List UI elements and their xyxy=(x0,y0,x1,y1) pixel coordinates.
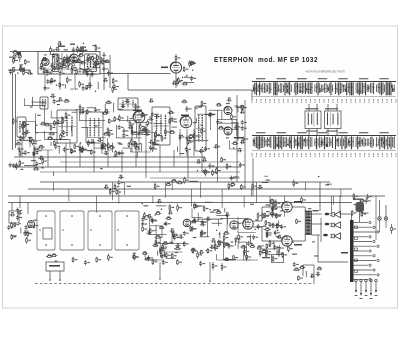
resistor R112 with value label xyxy=(188,134,193,137)
cathode network below V3 xyxy=(180,129,194,156)
capacitor C59 with value label xyxy=(134,104,140,109)
capacitor C118 with value label xyxy=(84,260,90,265)
capacitor C121 with value label xyxy=(147,255,153,261)
resistor R123 with value label xyxy=(132,142,139,145)
wiring mesh xyxy=(116,103,238,152)
keyboard switch module box 2 xyxy=(60,211,84,250)
wire xyxy=(154,143,160,145)
resistor R197 with value label xyxy=(219,240,224,245)
resistor R193 with value label xyxy=(223,234,228,241)
terminal strip bottom lugs xyxy=(355,279,378,299)
resistor R7 with value label xyxy=(43,68,48,74)
tube V6b AF amp xyxy=(230,221,238,229)
capacitor C80 with value label xyxy=(185,106,191,112)
wire xyxy=(141,144,143,151)
label EM80 xyxy=(161,67,168,69)
capacitor C94 with value label xyxy=(34,147,40,152)
capacitor C175 with value label xyxy=(310,274,315,278)
capacitor C96 with value label xyxy=(239,162,245,167)
wire xyxy=(89,58,91,68)
resistor R202 with value label xyxy=(233,255,238,261)
capacitor C107 with value label xyxy=(12,163,18,168)
wire xyxy=(166,257,176,259)
IF transformer / coil can L5 xyxy=(118,98,138,110)
label UCC85 xyxy=(58,46,65,48)
resistor R221 with value label xyxy=(278,250,283,257)
resistor R110 with value label xyxy=(232,141,239,144)
capacitor C102 with value label xyxy=(196,159,201,163)
resistor R32 with value label xyxy=(82,46,87,54)
resistor R128 with value label xyxy=(216,167,221,174)
resistor R113 with value label xyxy=(231,114,236,121)
capacitor C35 with value label xyxy=(190,76,196,81)
resistor R55 with value label xyxy=(22,122,27,130)
capacitor C26 with value label xyxy=(87,83,92,87)
capacitor C135 with value label xyxy=(178,235,183,239)
loudspeaker SP3 xyxy=(330,233,340,239)
capacitor C158 with value label xyxy=(272,202,277,206)
capacitor C89 with value label xyxy=(101,146,106,150)
resistor R143 with value label xyxy=(228,183,233,191)
capacitor C122 with value label xyxy=(141,222,147,227)
resistor R235 with value label xyxy=(361,211,366,217)
capacitor C5 with value label xyxy=(19,67,25,72)
wire xyxy=(266,231,268,237)
capacitor C17 with value label xyxy=(86,67,92,73)
resistor R17 with value label xyxy=(88,54,93,60)
resistor R184 with value label xyxy=(197,251,202,259)
resistor R230 with value label xyxy=(265,220,270,226)
capacitor C70 with value label xyxy=(240,110,245,114)
resistor R29 with value label xyxy=(76,69,81,75)
wire xyxy=(127,116,129,122)
wire xyxy=(43,71,54,73)
resistor R215 with value label xyxy=(266,244,271,249)
IF transformer / coil can T3 xyxy=(86,112,103,143)
capacitor C100 with value label xyxy=(199,149,204,153)
resistor R66 with value label xyxy=(24,121,29,128)
resistor R159 with value label xyxy=(144,212,149,219)
resistor R65 with value label xyxy=(38,145,45,148)
junction xyxy=(36,125,37,126)
capacitor C74 with value label xyxy=(241,126,247,131)
resistor R49 with value label xyxy=(189,60,194,67)
capacitor C78 with value label xyxy=(227,97,232,101)
wire xyxy=(31,101,45,103)
capacitor C36 with value label xyxy=(138,130,144,136)
dial lamp box xyxy=(46,262,64,281)
resistor R216 with value label xyxy=(116,189,121,195)
feedback wire xyxy=(276,246,278,255)
capacitor C47 with value label xyxy=(94,108,100,113)
capacitor C87 with value label xyxy=(24,150,30,155)
resistor R220 with value label xyxy=(288,245,293,252)
capacitor C131 with value label xyxy=(172,233,178,239)
junction xyxy=(186,75,187,76)
resistor R91 with value label xyxy=(131,139,136,145)
resistor R167 with value label xyxy=(152,259,157,265)
junction xyxy=(277,230,278,231)
wire xyxy=(214,242,216,251)
resistor R144 with value label xyxy=(230,182,235,185)
capacitor C44 with value label xyxy=(58,97,63,101)
junction xyxy=(192,70,193,71)
junction xyxy=(51,70,52,71)
coupling capacitor C90 xyxy=(325,213,330,216)
resistor R1 with value label xyxy=(20,65,25,72)
antenna feed wires xyxy=(13,72,16,150)
resistor R188 with value label xyxy=(203,205,208,212)
capacitor C69 with value label xyxy=(242,136,248,141)
capacitor C43 with value label xyxy=(97,138,102,142)
resistor R244 with value label xyxy=(299,265,305,268)
capacitor C148 with value label xyxy=(206,217,211,221)
resistor R201 with value label xyxy=(259,249,264,257)
capacitor C42 with value label xyxy=(79,109,85,114)
capacitor C58 with value label xyxy=(149,99,154,103)
resistor R54 with value label xyxy=(193,132,198,140)
capacitor C110 with value label xyxy=(25,225,31,230)
coupling capacitor C91 xyxy=(325,223,330,226)
resistor R118 with value label xyxy=(91,149,96,155)
resistor R120 with value label xyxy=(115,150,120,156)
wire xyxy=(95,63,97,68)
junction xyxy=(68,66,69,67)
scattered value labels tuner band xyxy=(20,54,318,258)
wire xyxy=(327,183,332,185)
capacitor C48 with value label xyxy=(90,139,95,143)
capacitor C88 with value label xyxy=(18,146,24,151)
resistor R152 with value label xyxy=(72,257,77,263)
capacitor C67 with value label xyxy=(149,145,155,150)
IF transformer / coil can T4 xyxy=(152,107,170,145)
resistor R105 with value label xyxy=(141,128,147,131)
resistor R57 with value label xyxy=(54,140,59,146)
resistor R182 with value label xyxy=(207,248,212,254)
tube V9 6AQ5 output upper xyxy=(282,202,292,212)
junction xyxy=(159,278,161,280)
resistor R139 with value label xyxy=(154,183,159,190)
resistor R61 with value label xyxy=(50,125,55,131)
resistor R89 with value label xyxy=(102,111,109,114)
resistor R101 with value label xyxy=(169,118,174,125)
capacitor C55 with value label xyxy=(142,112,148,117)
resistor R224 with value label xyxy=(272,256,277,263)
label TS 30 xyxy=(341,252,348,254)
wires inside FM box xyxy=(41,53,97,72)
wire xyxy=(219,232,221,239)
capacitor C164 with value label xyxy=(118,175,124,179)
wire xyxy=(224,208,226,213)
wiring mesh xyxy=(145,208,258,260)
capacitor C173 with value label xyxy=(316,272,321,276)
resistor R102 with value label xyxy=(128,142,133,148)
resistor R138 with value label xyxy=(176,181,183,184)
resistor R103 with value label xyxy=(161,135,166,142)
junction xyxy=(202,147,203,148)
tube V10 6AQ5 output lower xyxy=(282,236,292,246)
junction xyxy=(95,91,96,92)
resistor R47 with value label xyxy=(191,60,196,66)
tube V4 EABC80 triode xyxy=(224,107,232,115)
resistor R98 with value label xyxy=(168,111,175,114)
capacitor C97 with value label xyxy=(230,176,236,181)
phase splitter coupling wires xyxy=(253,196,282,249)
resistor R200 with value label xyxy=(250,244,256,247)
capacitor C134 with value label xyxy=(173,235,179,241)
resistor R15 with value label xyxy=(57,55,62,62)
junction xyxy=(49,279,51,281)
decoupling network near FM box xyxy=(104,52,110,90)
capacitor C153 with value label xyxy=(252,235,258,240)
resistor R142 with value label xyxy=(184,177,189,184)
capacitor C137 with value label xyxy=(150,218,156,223)
resistor R39 with value label xyxy=(102,58,107,65)
capacitor C130 with value label xyxy=(146,230,151,234)
capacitor C132 with value label xyxy=(141,217,147,223)
capacitor C51 with value label xyxy=(125,99,131,103)
resistor R33 with value label xyxy=(50,46,55,54)
resistor R122 with value label xyxy=(81,147,86,153)
capacitor C129 with value label xyxy=(164,221,170,226)
resistor R222 with value label xyxy=(296,219,301,224)
wire xyxy=(58,146,60,153)
wire xyxy=(251,90,253,100)
capacitor C56 with value label xyxy=(171,117,177,122)
resistor R223 with value label xyxy=(269,212,276,215)
resistor R191 with value label xyxy=(191,248,196,251)
resistor R225 with value label xyxy=(265,251,270,257)
wire xyxy=(8,69,30,71)
resistor R108 with value label xyxy=(201,101,206,107)
wire xyxy=(24,164,37,166)
junction xyxy=(74,65,75,66)
resistor R238 with value label xyxy=(391,224,396,234)
capacitor C19 with value label xyxy=(65,58,71,63)
resistor R68 with value label xyxy=(43,123,50,126)
resistor R169 with value label xyxy=(174,247,181,250)
capacitor C65 with value label xyxy=(148,117,153,121)
switch block detail B xyxy=(325,108,342,131)
resistor R109 with value label xyxy=(216,103,222,106)
electrolytic filter can xyxy=(353,199,364,223)
capacitor C168 with value label xyxy=(275,214,281,219)
terminal strip TS30 xyxy=(340,196,379,282)
capacitor C77 with value label xyxy=(188,139,194,144)
resistor R83 with value label xyxy=(79,104,84,111)
capacitor C98 with value label xyxy=(213,144,219,148)
resistor R154 with value label xyxy=(134,254,139,260)
capacitor C136 with value label xyxy=(175,243,181,247)
resistor R149 with value label xyxy=(11,222,16,229)
capacitor C75 with value label xyxy=(216,120,222,125)
capacitor C104 with value label xyxy=(208,163,214,169)
capacitor C93 with value label xyxy=(70,149,76,154)
input feed wires xyxy=(12,196,28,214)
capacitor C3 with value label xyxy=(11,67,16,71)
junction xyxy=(121,177,122,178)
trimmer capacitor C1 xyxy=(13,55,16,58)
resistor R173 with value label xyxy=(162,244,167,251)
wire xyxy=(136,151,138,158)
cathode network below V2 xyxy=(132,124,146,152)
resistor R163 with value label xyxy=(155,211,161,214)
resistor R140 with value label xyxy=(241,184,246,190)
rail drop wires xyxy=(53,182,341,217)
wire xyxy=(258,245,264,247)
resistor R114 with value label xyxy=(181,100,187,103)
resistor R22 with value label xyxy=(41,62,46,70)
drop networks below FM box xyxy=(45,74,90,90)
resistor R44 with value label xyxy=(176,78,181,86)
wire xyxy=(164,251,166,257)
resistor R52 with value label xyxy=(145,127,150,135)
resistor R180 with value label xyxy=(159,247,164,255)
capacitor C12 with value label xyxy=(85,57,91,61)
resistor R194 with value label xyxy=(223,231,230,234)
wire xyxy=(66,54,68,62)
junction xyxy=(101,148,102,149)
resistor R199 with value label xyxy=(240,245,246,248)
capacitor C84 with value label xyxy=(32,151,38,156)
capacitor C23 with value label xyxy=(72,47,78,53)
resistor R213 with value label xyxy=(261,249,267,252)
tube V6 EABC80 AF amp xyxy=(183,219,191,227)
resistor R148 with value label xyxy=(33,223,38,229)
wire xyxy=(101,144,103,154)
resistor R212 with value label xyxy=(266,232,271,239)
resistor R186 with value label xyxy=(201,230,206,236)
junction xyxy=(274,232,275,233)
wire xyxy=(361,212,369,214)
capacitor C99 with value label xyxy=(237,148,242,152)
resistor R229 with value label xyxy=(301,197,306,204)
resistor R95 with value label xyxy=(129,120,134,128)
wire xyxy=(205,201,213,203)
capacitor C170 with value label xyxy=(266,231,272,236)
keyboard switch module box 3 xyxy=(88,211,112,250)
resistor R218 with value label xyxy=(114,183,119,190)
capacitor C21 with value label xyxy=(78,48,84,52)
wire xyxy=(186,82,194,84)
junction xyxy=(31,73,32,74)
push-button switch bank S1 upper deck (rear view) xyxy=(251,78,396,103)
wire xyxy=(77,50,87,52)
label 6AQ5 lower xyxy=(294,244,302,246)
capacitor C105 with value label xyxy=(38,156,44,160)
resistor R18 with value label xyxy=(64,56,69,62)
junction xyxy=(201,125,202,126)
capacitor C120 with value label xyxy=(157,199,162,203)
resistor R14 with value label xyxy=(72,65,77,71)
wire xyxy=(171,126,177,128)
wire xyxy=(81,69,86,71)
capacitor C115 with value label xyxy=(7,225,13,230)
junction xyxy=(318,176,319,177)
FM antenna input filter xyxy=(10,51,38,53)
resistor R81 with value label xyxy=(108,142,113,149)
loudspeaker SP2 xyxy=(330,222,340,228)
connector wires between switch decks xyxy=(309,104,337,135)
wire xyxy=(305,271,307,277)
resistor R231 with value label xyxy=(276,223,281,228)
capacitor C114 with value label xyxy=(10,212,15,216)
resistor R196 with value label xyxy=(224,242,231,245)
volume control box xyxy=(43,228,52,239)
resistor R46 with value label xyxy=(178,77,183,84)
capacitor C150 with value label xyxy=(200,222,206,226)
label EABC80 xyxy=(234,137,243,139)
resistor R168 with value label xyxy=(161,246,166,251)
label 6AQ5 upper xyxy=(294,201,302,203)
wire xyxy=(113,103,115,113)
capacitor C161 with value label xyxy=(278,245,284,251)
capacitor C46 with value label xyxy=(104,109,110,113)
resistor R27 with value label xyxy=(97,55,102,60)
capacitor C37 with value label xyxy=(186,135,192,141)
junction xyxy=(142,203,143,204)
resistor R41 with value label xyxy=(112,86,117,93)
capacitor C109 with value label xyxy=(257,185,263,189)
resistor R211 with value label xyxy=(269,240,274,247)
junction xyxy=(155,229,156,230)
junction xyxy=(160,123,161,124)
wire xyxy=(81,126,87,128)
capacitor C101 with value label xyxy=(202,158,207,162)
resistor R158 with value label xyxy=(177,259,182,265)
wire xyxy=(272,203,274,212)
capacitor C66 with value label xyxy=(122,133,128,138)
resistor R50 with value label xyxy=(189,61,196,64)
capacitor C64 with value label xyxy=(151,112,157,117)
capacitor C7 with value label xyxy=(50,63,55,67)
resistor R9 with value label xyxy=(94,60,99,68)
resistor R96 with value label xyxy=(169,130,175,133)
wire xyxy=(97,82,99,89)
resistor R126 with value label xyxy=(205,169,210,177)
wire xyxy=(104,104,106,113)
resistor R78 with value label xyxy=(108,119,113,124)
resistor R153 with value label xyxy=(46,254,53,257)
capacitor C154 with value label xyxy=(247,241,253,246)
resistor R195 with value label xyxy=(200,231,205,238)
junction xyxy=(206,250,207,251)
resistor R51 with value label xyxy=(131,128,136,136)
resistor R19 with value label xyxy=(75,59,82,62)
resistor R8 with value label xyxy=(42,57,47,60)
capacitor C90 with value label xyxy=(101,144,107,149)
coil L1 xyxy=(17,52,21,55)
supply rail 3 xyxy=(8,195,385,197)
capacitor C174 with value label xyxy=(293,262,299,267)
wire xyxy=(20,228,22,234)
capacitor C156 with value label xyxy=(271,212,277,218)
pickup input box xyxy=(9,211,19,223)
resistor R23 with value label xyxy=(78,53,84,56)
resistor R11 with value label xyxy=(97,60,102,65)
capacitor C63 with value label xyxy=(123,128,129,133)
capacitor C33 with value label xyxy=(113,84,119,89)
capacitor C39 with value label xyxy=(53,99,59,104)
capacitor C31 with value label xyxy=(107,70,113,76)
resistor R99 with value label xyxy=(147,120,152,127)
resistor R164 with value label xyxy=(171,253,176,259)
resistor R151 with value label xyxy=(51,254,58,257)
resistor R64 with value label xyxy=(22,132,28,135)
wire xyxy=(88,141,95,143)
capacitor C45 with value label xyxy=(62,130,68,135)
capacitor C32 with value label xyxy=(102,66,108,72)
